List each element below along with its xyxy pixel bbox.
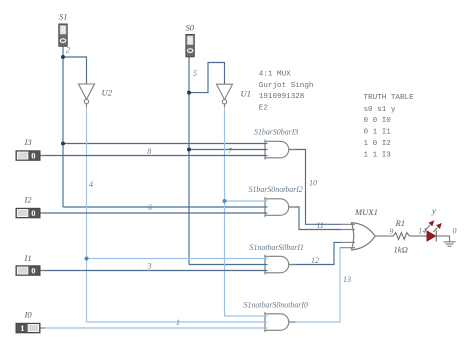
svg-text:1 0 I2: 1 0 I2 (364, 140, 392, 148)
pin stub I3 (40, 155, 45, 157)
wire S0 branch to U1 input (189, 63, 225, 93)
wire net 11 gate2 output to OR input2 (290, 207, 342, 230)
title text block (259, 70, 314, 112)
and-gate A4 S1notbarS0notbarI0 (265, 312, 296, 332)
wire net 3 U2 output to gate3 top (87, 258, 267, 260)
svg-text:Gurjot Singh: Gurjot Singh (259, 82, 314, 90)
svg-text:0: 0 (453, 227, 457, 236)
wire S0 corner to gate3 middle (189, 264, 266, 266)
switch S1 (59, 24, 67, 46)
svg-text:I2: I2 (24, 195, 33, 205)
svg-text:I3: I3 (24, 137, 32, 147)
svg-text:0: 0 (31, 151, 35, 161)
svg-text:8: 8 (147, 147, 151, 156)
svg-text:0: 0 (31, 208, 35, 218)
svg-text:5: 5 (193, 69, 197, 78)
pin stub I1 (40, 270, 45, 272)
wire U1 output corner to gate4 top (225, 315, 267, 317)
wire I1 row to gate3 bottom (40, 270, 266, 272)
svg-text:4: 4 (89, 180, 93, 189)
svg-text:E2: E2 (259, 105, 269, 113)
svg-text:1: 1 (176, 318, 180, 327)
wire net 10 gate1 output to OR input1 (290, 150, 342, 225)
svg-text:S1notbarS0barI1: S1notbarS0barI1 (250, 243, 304, 252)
svg-text:4:1 MUX: 4:1 MUX (259, 70, 291, 78)
wire S1 main vertical (62, 57, 64, 207)
svg-text:S1barS0notbarI2: S1barS0notbarI2 (249, 185, 303, 194)
svg-text:14: 14 (418, 227, 426, 236)
wire LED to ground (436, 236, 449, 242)
junction dot U2 net3 (85, 257, 89, 261)
wire net 12 gate3 output to OR input3 (290, 242, 342, 264)
pin stub I2 (40, 212, 45, 214)
svg-text:R1: R1 (395, 218, 406, 228)
svg-text:I0: I0 (24, 310, 33, 320)
wire I2 row to gate2 bottom (40, 212, 266, 214)
svg-text:9: 9 (389, 227, 393, 236)
and-gate A1 S1barS0barI3 (265, 140, 296, 160)
wire U1 output vertical (224, 107, 226, 316)
svg-text:s0 s1 y: s0 s1 y (364, 106, 396, 114)
svg-text:0: 0 (31, 266, 35, 276)
wire net 13 gate4 output to OR input4 (290, 248, 342, 322)
input I3 (16, 151, 40, 161)
svg-text:S1: S1 (59, 12, 68, 22)
svg-text:I1: I1 (24, 253, 32, 263)
svg-text:U1: U1 (241, 89, 252, 99)
pin stub I0 (40, 327, 45, 329)
wire net 4 U2 output vertical (86, 107, 88, 322)
wire S0 main vertical (188, 93, 190, 265)
wire net 14 R1 to LED (411, 235, 427, 237)
svg-text:S1barS0barI3: S1barS0barI3 (254, 128, 298, 137)
input I0 (16, 323, 40, 333)
wire net 9 OR output to R1 (375, 235, 391, 237)
ground (444, 242, 456, 246)
truth table (364, 94, 415, 159)
svg-text:11: 11 (317, 221, 324, 230)
svg-text:S1notbarS0notbarI0: S1notbarS0notbarI0 (244, 301, 308, 310)
and-gate A3 S1notbarS0barI1 (265, 255, 296, 275)
wire S1 stem (62, 46, 64, 57)
wire S1 corner to gate2 middle (63, 206, 266, 208)
junction dot S1 top (61, 55, 65, 59)
wire S0 stem (188, 57, 190, 93)
svg-text:12: 12 (311, 256, 319, 265)
svg-text:1 1 I3: 1 1 I3 (364, 151, 392, 159)
input I1 (16, 266, 40, 276)
wire I3 row to gate1 bottom (40, 155, 266, 157)
svg-text:MUX1: MUX1 (354, 207, 378, 217)
and-gate A2 S1barS0notbarI2 (265, 197, 296, 217)
input I2 (16, 208, 40, 218)
junction dot S0 net7 (187, 148, 191, 152)
wire U1 output to gate2 top (225, 200, 267, 202)
wire net 1 I0 row to gate4 bottom (40, 327, 266, 329)
svg-text:13: 13 (343, 275, 351, 284)
switch S0 (186, 35, 194, 57)
svg-text:6: 6 (148, 203, 152, 212)
LED y (425, 220, 442, 241)
svg-text:3: 3 (147, 262, 152, 271)
junction dot U1 net gate2 (223, 199, 227, 203)
svg-text:0 0 I0: 0 0 I0 (364, 117, 392, 125)
junction dot S0 top (187, 91, 191, 95)
wire net 8 S1 to gate1 top (63, 143, 266, 145)
svg-text:1910991328: 1910991328 (259, 93, 305, 101)
svg-text:0 1 I1: 0 1 I1 (364, 129, 392, 137)
svg-text:S0: S0 (186, 23, 195, 33)
svg-text:2: 2 (66, 46, 70, 55)
svg-text:10: 10 (309, 179, 317, 188)
svg-text:U2: U2 (102, 88, 113, 98)
inverter U2 (79, 84, 95, 107)
resistor R1 (392, 233, 412, 240)
wire S1 branch to U2 input (63, 57, 87, 84)
wire U2 output corner to gate4 middle (87, 321, 267, 323)
or-gate MUX1 (341, 223, 376, 250)
svg-text:TRUTH TABLE: TRUTH TABLE (364, 94, 415, 102)
wire net 7 S0 to gate1 middle (189, 149, 266, 151)
junction dot S1 net8 (61, 142, 65, 146)
svg-text:1kΩ: 1kΩ (394, 245, 408, 255)
svg-text:y: y (431, 206, 436, 216)
svg-text:1: 1 (20, 323, 24, 333)
inverter U1 (217, 84, 233, 107)
